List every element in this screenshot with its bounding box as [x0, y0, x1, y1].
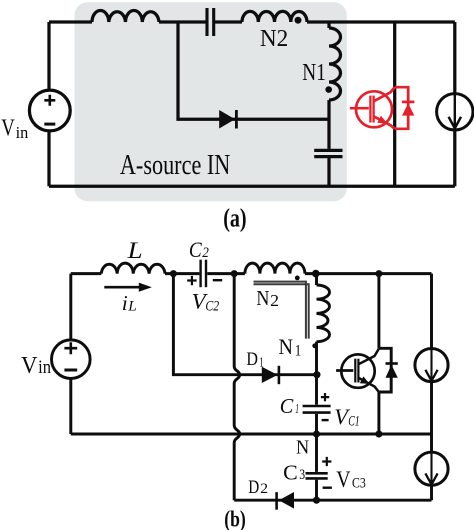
svg-text:C3: C3: [352, 476, 366, 492]
svg-text:C: C: [280, 394, 294, 418]
svg-text:1: 1: [295, 401, 299, 416]
svg-text:(b): (b): [224, 507, 246, 530]
svg-text:D: D: [248, 478, 259, 498]
svg-text:N: N: [256, 286, 269, 310]
svg-text:in: in: [38, 357, 51, 378]
svg-text:L: L: [126, 238, 142, 263]
svg-text:2: 2: [202, 245, 209, 261]
svg-text:2: 2: [260, 481, 268, 497]
svg-text:V: V: [336, 467, 351, 492]
svg-text:V: V: [1, 115, 15, 141]
svg-text:C: C: [283, 460, 298, 484]
svg-text:N2: N2: [260, 26, 288, 52]
svg-text:C: C: [189, 238, 202, 262]
svg-text:V: V: [21, 352, 38, 379]
svg-text:in: in: [16, 123, 29, 142]
svg-text:N: N: [296, 437, 309, 459]
svg-text:1: 1: [259, 355, 263, 370]
svg-text:L: L: [127, 299, 137, 315]
svg-text:3: 3: [299, 467, 305, 483]
svg-text:(a): (a): [223, 203, 246, 232]
svg-text:1: 1: [295, 343, 302, 360]
svg-text:N: N: [279, 334, 294, 359]
svg-text:N1: N1: [302, 60, 326, 86]
svg-text:D: D: [246, 349, 258, 370]
svg-text:2: 2: [270, 291, 279, 310]
svg-text:C2: C2: [205, 299, 219, 315]
svg-text:i: i: [122, 291, 128, 315]
svg-text:C1: C1: [348, 414, 360, 430]
svg-text:A-source IN: A-source IN: [120, 150, 230, 181]
